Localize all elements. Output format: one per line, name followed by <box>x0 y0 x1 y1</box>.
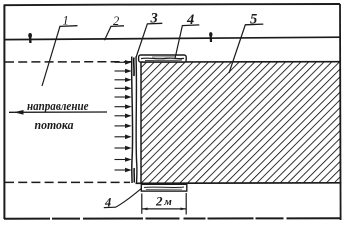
frame left border <box>3 5 5 220</box>
frame top border <box>4 4 340 5</box>
frame right border <box>339 4 342 220</box>
bottom slab 4 <box>141 184 187 191</box>
pressure arrow 12 <box>115 169 131 172</box>
svg-text:направление: направление <box>27 99 89 113</box>
dim arrowhead right <box>181 208 187 211</box>
label 1 <box>42 13 78 86</box>
pressure arrow 3 <box>115 78 131 81</box>
label 3 <box>136 11 162 58</box>
tick left on waterline <box>29 34 32 44</box>
label 2 <box>105 14 125 40</box>
svg-text:1: 1 <box>63 13 69 27</box>
svg-text:м: м <box>163 196 172 208</box>
flow direction arrow <box>9 110 107 115</box>
extension line right <box>185 193 187 215</box>
label 5 <box>229 12 263 73</box>
label 4 top <box>175 12 199 58</box>
frame bottom border <box>4 217 341 219</box>
top slab 4 <box>139 55 187 62</box>
label 4 bottom <box>104 188 142 209</box>
pressure arrow 2 <box>115 70 131 73</box>
tick right on waterline <box>210 33 213 43</box>
pressure arrow 5 <box>115 96 131 99</box>
pressure arrow 11 <box>115 158 131 161</box>
dashed bottom line upstream <box>5 181 130 183</box>
dim arrowhead left <box>142 208 148 211</box>
dashed water surface line upstream <box>5 61 131 63</box>
waterline 2 (horizontal line) <box>4 37 340 39</box>
dimension line <box>142 208 186 210</box>
hatched block 5 <box>136 62 341 184</box>
dimension 2 m <box>142 193 186 215</box>
svg-text:потока: потока <box>35 118 74 132</box>
pressure arrow 9 <box>115 135 131 138</box>
pressure arrow 4 <box>115 87 131 90</box>
pressure arrow 7 <box>115 114 131 117</box>
extension line left <box>141 194 143 214</box>
pressure arrow 8 <box>115 124 131 127</box>
pressure arrows on wall <box>115 61 131 172</box>
svg-text:2: 2 <box>155 193 163 208</box>
pressure arrow 10 <box>115 147 131 150</box>
sheet-pile wall 3 <box>132 57 137 184</box>
pressure arrow 1 <box>115 61 131 64</box>
pressure arrow 6 <box>115 105 131 108</box>
